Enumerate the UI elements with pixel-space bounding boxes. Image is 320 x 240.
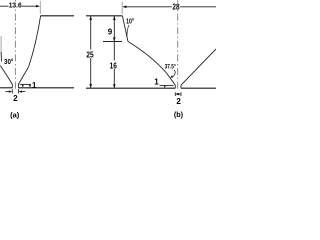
svg-text:(b): (b) <box>174 110 184 119</box>
svg-text:9: 9 <box>108 27 113 36</box>
root gap bar right (b) <box>180 92 182 96</box>
root gap bar left (b) <box>174 92 176 96</box>
root gap extension right (a) <box>17 89 19 94</box>
down arrow of 25 <box>89 84 92 88</box>
svg-text:(a): (a) <box>10 110 20 119</box>
svg-text:13.6: 13.6 <box>9 1 22 10</box>
left extension line fragment <box>0 36 2 53</box>
dimension line 28 <box>124 6 172 8</box>
svg-text:2: 2 <box>176 97 181 106</box>
root gap extension left (a) <box>11 89 13 94</box>
svg-text:28: 28 <box>172 2 180 11</box>
depth dimension 16 line <box>113 42 115 61</box>
root face left edge (a) <box>11 84 13 87</box>
angle leader arc for 37.5 deg <box>171 70 175 77</box>
root face right edge (b) <box>180 85 182 88</box>
height dimension 25 line <box>90 16 92 49</box>
arrowhead of 28 dimension <box>122 6 126 9</box>
root gap left arrow (b) <box>176 93 179 95</box>
left upper groove face (b) 10deg <box>122 16 128 42</box>
root face dim arrow 2 (a) <box>29 85 31 88</box>
right upper groove face (a) <box>29 16 41 67</box>
right lower groove face (a) 30deg <box>18 67 28 85</box>
svg-text:10°: 10° <box>126 18 134 26</box>
left lower groove face (b) upper part <box>128 42 167 74</box>
svg-text:25: 25 <box>86 50 94 59</box>
root face dimension tick (a) <box>20 83 31 85</box>
white gap under 28 <box>172 3 179 10</box>
angle leader arrowhead 37.5 <box>170 75 173 77</box>
root face left edge (b) <box>174 85 176 88</box>
down arrow of 16 <box>113 84 116 88</box>
root gap left arrow (a) <box>6 91 11 93</box>
left lower groove face (b) 37.5deg part <box>167 73 176 85</box>
up arrow of 9 <box>113 16 116 20</box>
svg-text:1: 1 <box>154 77 159 86</box>
svg-text:1: 1 <box>32 81 37 90</box>
knee level tick (b) <box>103 41 122 43</box>
up arrow of 25 <box>89 16 92 20</box>
root face right edge (a) <box>17 84 19 87</box>
baseline bottom surface (b) <box>86 87 175 89</box>
white gap under 2 (a) <box>13 94 19 101</box>
depth dimension 9 line <box>113 16 115 41</box>
root face dim arrow 1 (a) <box>22 85 24 88</box>
svg-text:2: 2 <box>13 94 18 103</box>
arrowhead of 13.6 dimension <box>36 5 40 8</box>
svg-text:16: 16 <box>110 61 118 70</box>
svg-text:37.5°: 37.5° <box>165 63 176 71</box>
left upper groove face stub (a) <box>0 52 2 62</box>
dimension line 13.6 <box>0 5 9 7</box>
root gap right arrow (b) <box>178 93 181 95</box>
white gap under 13.6 <box>9 2 22 9</box>
right lower groove face (b) <box>181 49 216 85</box>
extension line at right of 13.6 <box>39 1 41 14</box>
root gap right arrow (a) <box>20 91 25 93</box>
left lower groove face (a) <box>0 66 12 85</box>
centerline of groove (b) <box>177 0 179 90</box>
baseline bottom surface (a) <box>0 87 12 89</box>
centerline of groove (a) <box>14 0 16 90</box>
angle leader for 10 deg <box>127 25 129 37</box>
root face dimension tick (b) <box>160 84 174 86</box>
top surface line (a) <box>40 15 74 17</box>
extension line left of 28 <box>121 2 123 15</box>
top surface line (b) <box>86 15 122 17</box>
down arrow of 9 <box>113 37 116 41</box>
root face dim arrow (b) <box>164 86 166 88</box>
svg-text:30°: 30° <box>4 57 13 66</box>
